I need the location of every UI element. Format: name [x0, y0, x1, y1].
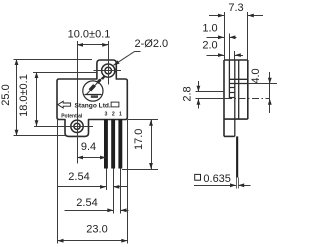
- svg-text:7.3: 7.3: [228, 2, 243, 14]
- svg-text:0.635: 0.635: [203, 173, 231, 185]
- svg-text:2.0: 2.0: [202, 39, 217, 51]
- svg-text:2.54: 2.54: [76, 197, 97, 209]
- svg-text:18.0±0.1: 18.0±0.1: [18, 74, 30, 117]
- svg-text:23.0: 23.0: [86, 224, 107, 236]
- svg-text:1: 1: [119, 112, 122, 118]
- svg-text:2-Ø2.0: 2-Ø2.0: [135, 38, 169, 50]
- svg-text:9.4: 9.4: [81, 141, 96, 153]
- svg-text:3: 3: [105, 112, 108, 118]
- svg-text:10.0±0.1: 10.0±0.1: [68, 28, 111, 40]
- svg-text:2: 2: [112, 112, 115, 118]
- svg-text:17.0: 17.0: [133, 129, 145, 150]
- svg-text:Potential: Potential: [61, 114, 83, 120]
- svg-text:1.0: 1.0: [202, 23, 217, 35]
- svg-text:25.0: 25.0: [0, 84, 12, 105]
- svg-text:2.8: 2.8: [182, 86, 194, 101]
- svg-text:2.54: 2.54: [68, 171, 89, 183]
- svg-text:Stango Ltd.: Stango Ltd.: [75, 102, 111, 109]
- svg-text:4.0: 4.0: [250, 68, 262, 83]
